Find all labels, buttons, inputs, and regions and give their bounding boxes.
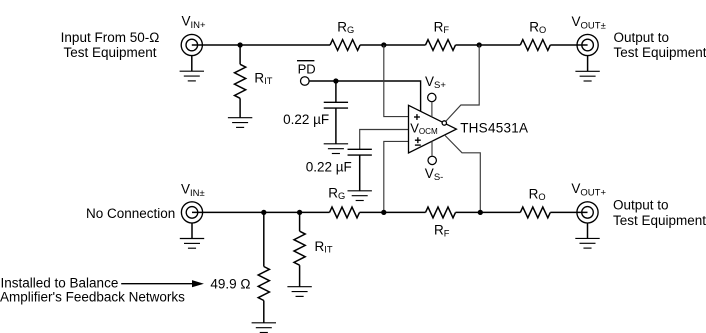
node E junction dot bottom rail 49.9 (261, 210, 266, 215)
node A junction dot top rail at RIT (237, 42, 242, 47)
wire cap C1 bottom stem (335, 108, 337, 144)
ground RIT bottom (287, 287, 311, 297)
wire noninverting output to bottom node (445, 135, 481, 212)
svg-text:Input From 50-Ω: Input From 50-Ω (61, 30, 160, 45)
svg-text:0.22 µF: 0.22 µF (283, 112, 329, 127)
wire RIT top lead from node A (239, 45, 241, 64)
resistor RO bottom (520, 207, 550, 218)
wire RIT bottom to ground (299, 265, 301, 287)
ground C1 (324, 144, 348, 154)
output inversion bubble (442, 121, 446, 125)
terminal VS+ circle (428, 93, 436, 101)
wire VOCM pin to cap C2 (360, 130, 409, 150)
resistor 49.9 Ω (258, 267, 269, 301)
node B junction dot top rail RG-RF (381, 42, 386, 47)
arrow to 49.9 (121, 283, 193, 285)
node H junction dot bottom rail RF-RO (478, 210, 483, 215)
wire cap C1 top stem (335, 81, 337, 102)
terminal VS- circle (428, 156, 436, 164)
node G junction dot bottom rail RG-RF (381, 210, 386, 215)
connector J3 VIN± (181, 202, 202, 223)
svg-text:Installed to Balance: Installed to Balance (1, 276, 119, 291)
svg-text:THS4531A: THS4531A (460, 120, 528, 135)
resistor RIT (bottom) (294, 231, 305, 265)
svg-text:Amplifier's Feedback Networks: Amplifier's Feedback Networks (0, 290, 185, 305)
wire bottom rail RO to VOUT+ connector (550, 211, 587, 213)
resistor RF top (426, 40, 456, 51)
op-amp U1 THS4531A triangle (409, 105, 457, 153)
wire top rail from VIN+ connector to RG (192, 44, 330, 46)
capacitor C2 0.22uF (348, 149, 372, 155)
svg-text:49.9 Ω: 49.9 Ω (210, 276, 250, 291)
ground 49.9 (252, 323, 276, 333)
resistor RF bottom (426, 207, 456, 218)
svg-text:No Connection: No Connection (86, 206, 175, 221)
resistor RG bottom (330, 207, 360, 218)
capacitor C1 0.22uF (324, 102, 348, 108)
terminal PD circle (301, 77, 310, 86)
label + input pin (414, 114, 420, 120)
wire 49.9 to ground (263, 301, 265, 323)
wire bottom rail RF to RO (456, 211, 521, 213)
svg-text:Output to: Output to (614, 30, 670, 45)
wire 49.9 top lead (263, 212, 265, 266)
wire top rail RG to RF (360, 44, 425, 46)
wire PD to amp top edge (309, 81, 421, 111)
node D junction dot on PD wire (333, 78, 338, 83)
wire +input from node B down to amp (384, 45, 409, 117)
wire VOUT± connector ground stem (587, 55, 589, 71)
resistor RIT (top) (235, 64, 246, 98)
svg-text:Output to: Output to (613, 197, 669, 212)
wire bottom rail from VIN± connector to RG (192, 211, 330, 213)
connector J4 VOUT+ (577, 202, 598, 223)
svg-text:Test Equipment: Test Equipment (614, 45, 706, 60)
ground VOUT± connector (575, 71, 599, 81)
wire VOUT+ connector ground stem (587, 223, 589, 239)
wire VIN+ connector ground stem (191, 55, 193, 71)
wire RIT top to ground (239, 98, 241, 117)
ground C2 (348, 191, 372, 201)
ground VIN± connector (180, 239, 204, 249)
wire RIT bottom lead (299, 212, 301, 231)
svg-text:Test Equipment: Test Equipment (613, 213, 706, 228)
wire inverting output to node C (444, 45, 479, 123)
wire VS- stub (431, 141, 433, 156)
ground VOUT+ connector (575, 238, 599, 248)
wire top rail RF to RO (456, 44, 521, 46)
svg-text:PD: PD (298, 61, 316, 76)
node C junction dot top rail RF-RO (477, 42, 482, 47)
svg-text:0.22 µF: 0.22 µF (306, 159, 352, 174)
wire top rail RO to VOUT± connector (550, 44, 587, 46)
node F junction dot bottom rail RIT (297, 210, 302, 215)
connector J1 VIN+ (181, 34, 202, 55)
connector J2 VOUT± (577, 34, 598, 55)
resistor RO top (520, 40, 550, 51)
wire VIN± connector ground stem (191, 223, 193, 239)
wire VS+ stub (431, 102, 433, 117)
svg-text:Test Equipment: Test Equipment (63, 45, 156, 60)
resistor RG top (330, 40, 360, 51)
ground VIN+ connector (180, 71, 204, 81)
wire bottom rail RG to RF (360, 211, 426, 213)
ground RIT top (228, 118, 252, 128)
wire cap C2 bottom stem (359, 155, 361, 191)
wire -input from bottom node down to amp (384, 141, 409, 212)
label ± input pin (415, 137, 421, 145)
